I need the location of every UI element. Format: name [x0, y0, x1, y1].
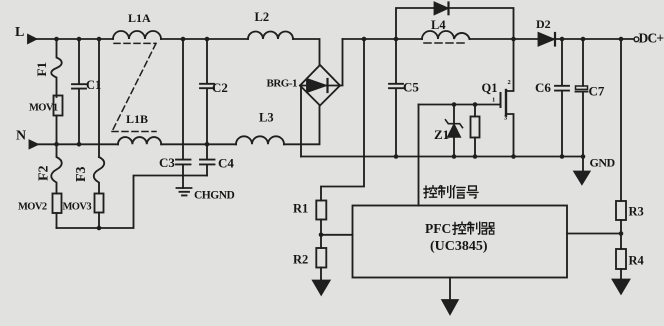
inductor L1B: [118, 137, 161, 144]
svg-text:L2: L2: [255, 10, 270, 24]
net label control signal 控制信号: [424, 186, 437, 198]
svg-text:C3: C3: [159, 155, 175, 170]
svg-text:F2: F2: [37, 165, 52, 181]
svg-text:2: 2: [508, 79, 511, 86]
inductor L3: [236, 136, 284, 144]
wire N bus mid segment: [161, 143, 236, 145]
wire L3 to bridge bottom: [284, 106, 320, 145]
cjk of PFC controller 控制器: [453, 222, 466, 234]
svg-text:GND: GND: [590, 156, 616, 170]
inductor L2: [248, 32, 293, 39]
fuse F2: [51, 144, 62, 193]
svg-text:F3: F3: [74, 166, 89, 182]
junction dot R1 R2: [319, 233, 324, 238]
svg-text:R2: R2: [293, 253, 308, 267]
wire L to F3 vertical: [98, 39, 100, 157]
svg-text:MOV2: MOV2: [18, 202, 47, 213]
diode D2: [539, 33, 554, 46]
ground arrow below R4: [613, 280, 630, 294]
wire C3 to chassis ground: [182, 165, 184, 188]
wire L bus mid segment: [161, 38, 248, 40]
wire DC bus: [343, 38, 423, 40]
capacitor C5: [389, 39, 403, 157]
svg-text:BRG-1: BRG-1: [267, 78, 298, 90]
capacitor C4: [200, 144, 215, 175]
svg-text:L4: L4: [431, 18, 446, 32]
transistor Q1 mosfet: [500, 93, 502, 107]
wire bridge plus up to bus: [340, 39, 343, 86]
PFC controller box U1: [353, 206, 568, 278]
svg-text:CHGND: CHGND: [194, 190, 235, 202]
resistor R3: [616, 201, 626, 220]
wire R1 to junction: [320, 220, 322, 249]
wire bottom-left rail: [57, 176, 208, 229]
svg-text:D2: D2: [536, 17, 551, 31]
inductor L1A: [113, 31, 161, 39]
wire C3 branch from L bus: [182, 39, 184, 159]
wire R3 from DC bus: [620, 39, 622, 201]
wire MOV3 to rail: [98, 213, 100, 229]
ground GND arrow: [574, 172, 589, 185]
capacitor C1: [72, 39, 86, 144]
L4 core dashes: [424, 42, 467, 44]
wire ground rail: [301, 156, 583, 158]
wire box bottom to ground arrow: [449, 278, 451, 301]
junction dots gate line: [452, 102, 457, 107]
varistor MOV2: [53, 194, 62, 214]
svg-text:C2: C2: [212, 80, 228, 95]
svg-text:C7: C7: [589, 84, 605, 99]
svg-text:C1: C1: [86, 78, 101, 92]
wire gate drive line: [419, 104, 501, 106]
wire R3 to junction: [620, 220, 622, 249]
bridge inner diode: [307, 79, 326, 92]
capacitor C7 polarized: [582, 39, 584, 86]
wire control signal vertical: [418, 105, 420, 206]
diode D1: [435, 3, 448, 15]
ground arrow below R2: [313, 281, 330, 295]
varistor MOV1: [54, 96, 63, 116]
fuse F3: [94, 157, 105, 194]
junction dots ground rail: [394, 154, 399, 159]
svg-text:MOV1: MOV1: [29, 103, 58, 114]
wire D1 bypass right leg: [448, 8, 514, 39]
inductor L4: [422, 31, 470, 39]
svg-text:MOV3: MOV3: [63, 202, 92, 213]
svg-text:C5: C5: [403, 80, 419, 95]
resistor R4: [616, 249, 626, 269]
wire D1 bypass left leg: [396, 8, 434, 39]
resistor R1: [316, 201, 326, 220]
svg-text:(UC3845): (UC3845): [430, 239, 488, 254]
choke core dashed Z: [112, 43, 156, 131]
svg-text:C6: C6: [535, 80, 551, 95]
wire DC bus after L4: [470, 38, 538, 40]
capacitor C3: [176, 160, 191, 165]
svg-text:L: L: [15, 25, 24, 40]
wire bridge minus to rail: [300, 87, 302, 157]
bridge rectifier BRG-1 diamond: [300, 65, 340, 106]
bridge inner line: [300, 85, 340, 87]
svg-text:L1A: L1A: [128, 11, 151, 25]
wire N bus left segment: [34, 143, 118, 145]
terminal L arrow: [28, 35, 36, 43]
resistor unlabeled gate divider: [474, 105, 476, 157]
svg-text:L1B: L1B: [126, 112, 148, 126]
svg-text:C4: C4: [218, 156, 234, 171]
svg-text:R3: R3: [629, 205, 644, 219]
chassis ground CHGND: [177, 188, 192, 195]
terminal N arrow: [30, 141, 38, 149]
resistor R2: [316, 248, 326, 268]
junction dot R3 R4: [619, 231, 624, 236]
varistor MOV3: [95, 194, 104, 213]
capacitor C6: [555, 39, 569, 157]
wire box to R3R4 junction: [567, 233, 621, 235]
ground arrow below box: [442, 300, 457, 314]
svg-text:Z1: Z1: [434, 127, 449, 142]
svg-text:1: 1: [492, 97, 495, 104]
junction dots L bus: [54, 37, 59, 42]
wire junction to PFC box: [321, 234, 353, 236]
junction dots DC bus: [362, 37, 367, 42]
zener Z1: [453, 105, 455, 124]
wire MOV1 to N: [56, 116, 58, 145]
svg-text:F1: F1: [34, 62, 49, 76]
capacitor C2 branch: [200, 39, 214, 144]
svg-text:L3: L3: [259, 111, 274, 125]
terminal DC+ circle: [634, 37, 639, 42]
svg-text:N: N: [16, 129, 26, 144]
wire L bus left segment: [31, 38, 113, 40]
fuse F1: [51, 39, 62, 97]
wire L2 to bridge top: [293, 39, 320, 65]
svg-text:Q1: Q1: [482, 81, 498, 95]
junction dots N bus: [54, 142, 59, 147]
wire R2 to ground arrow: [320, 268, 322, 281]
wire R4 to ground arrow: [620, 269, 622, 280]
junction dot MOV rail: [97, 226, 102, 231]
wire DC bus after D2: [554, 38, 634, 40]
wire bus sense to R1: [321, 39, 364, 201]
svg-text:R1: R1: [293, 202, 308, 216]
svg-text:PFC: PFC: [425, 221, 451, 236]
svg-text:R4: R4: [629, 254, 645, 268]
svg-text:DC+: DC+: [639, 31, 664, 46]
wire MOV2 to rail: [56, 213, 58, 228]
